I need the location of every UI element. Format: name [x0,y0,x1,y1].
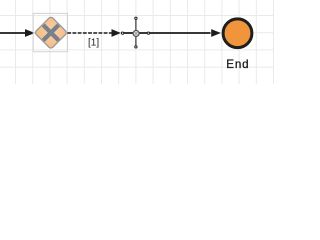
handle right [147,32,149,34]
wire: sequence flow to end event [150,29,221,37]
end event E1 (highlighted orange) [223,19,252,48]
wire: dashed sequence flow from gateway [67,29,121,37]
selection box around gateway [33,13,67,51]
svg-text:[1]: [1] [88,38,99,49]
edge docker crosshair [121,17,149,48]
center docker circle [133,30,139,36]
svg-text:End: End [226,58,249,71]
wire: incoming sequence flow [0,29,35,37]
exclusive gateway G1 (highlighted orange) [34,16,67,49]
gateway X marker [43,25,58,40]
handle top [135,17,137,19]
handle left [121,32,123,34]
canvas background [0,0,274,84]
crosshair arms [135,19,137,46]
handle bottom [135,46,137,48]
